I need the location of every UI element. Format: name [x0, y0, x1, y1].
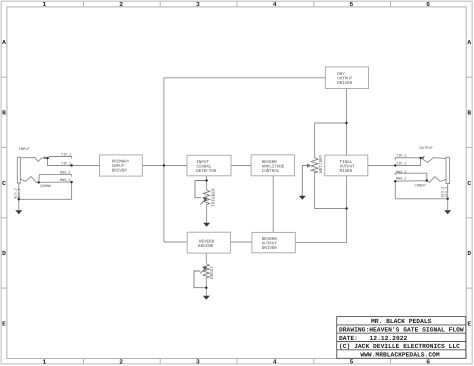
- label INPUT and value CONN6: [19, 147, 53, 189]
- wire: reverb engine to reverb output driver: [230, 241, 252, 243]
- svg-text:CONN6: CONN6: [40, 184, 52, 189]
- svg-text:TIP_1: TIP_1: [396, 153, 407, 158]
- svg-text:RNG_1: RNG_1: [60, 178, 71, 183]
- wire: input TIP_2 to primary input driver: [72, 165, 100, 167]
- svg-text:TIP_2: TIP_2: [396, 162, 407, 167]
- svg-text:5: 5: [350, 1, 354, 8]
- wire: primary input driver to input signal detector: [142, 165, 187, 167]
- svg-text:B: B: [467, 110, 471, 117]
- svg-text:5: 5: [350, 358, 354, 365]
- svg-text:REVERB: REVERB: [199, 239, 215, 244]
- svg-text:6: 6: [426, 358, 430, 365]
- wire: final output mixer to output jack: [368, 165, 396, 167]
- block DRY OUTPUT DRIVER: [325, 67, 368, 89]
- tip_1 stub: [48, 157, 72, 159]
- block FINAL OUTPUT MIXER: [325, 155, 368, 176]
- block INPUT SIGNAL DETECTOR: [187, 155, 231, 176]
- tip switch throw mark: [421, 156, 425, 159]
- tip_2 wire: [48, 158, 72, 165]
- svg-text:TIP_2: TIP_2: [61, 162, 72, 167]
- connector J-IN input jack CONN6: [17, 156, 71, 210]
- svg-text:B: B: [2, 110, 6, 117]
- ground (output sleeve): [444, 210, 451, 214]
- svg-text:FINAL: FINAL: [340, 160, 353, 165]
- potentiometer DECAY: [194, 264, 209, 288]
- svg-text:INPUT: INPUT: [112, 164, 125, 169]
- wire: decay pot to ground: [205, 278, 207, 296]
- wire: reverb engine to decay pot: [205, 253, 207, 263]
- wire: final output mixer bottom to wet node: [346, 176, 348, 243]
- svg-text:MIXER: MIXER: [340, 169, 353, 174]
- label OUTPUT and value CONN7: [415, 146, 434, 189]
- svg-text:4: 4: [273, 358, 277, 365]
- wire: wet node to reverb output driver: [295, 242, 346, 244]
- rng_1 wire: [39, 181, 72, 183]
- tip contact: [20, 158, 47, 162]
- svg-text:DRIVER: DRIVER: [262, 246, 278, 251]
- svg-text:WET/DRY: WET/DRY: [318, 154, 324, 173]
- ring contact: [20, 177, 38, 183]
- svg-text:2: 2: [119, 358, 123, 365]
- ground (wet/dry): [299, 196, 306, 200]
- svg-text:MR. BLACK PEDALS: MR. BLACK PEDALS: [371, 318, 432, 325]
- wire: dry output driver down to node: [346, 89, 348, 156]
- pin labels SLV_2 SLV_1 (input jack): [13, 188, 22, 199]
- svg-text:DECAY: DECAY: [210, 265, 215, 279]
- svg-text:DATE:: DATE:: [339, 335, 358, 342]
- tip contact: [421, 158, 446, 163]
- ring return to sleeve: [19, 182, 72, 199]
- svg-text:DRIVER: DRIVER: [112, 169, 128, 174]
- block REVERB AMPLITUDE CONTROL: [251, 155, 294, 176]
- svg-text:1: 1: [43, 1, 47, 8]
- svg-text:OUTPUT: OUTPUT: [340, 165, 356, 170]
- ground (decay): [203, 296, 210, 300]
- ring contact: [427, 177, 446, 183]
- block REVERB ENGINE: [187, 232, 230, 253]
- ring return to sleeve: [395, 181, 447, 199]
- tip_1 stub: [395, 158, 420, 160]
- svg-text:RNG_2: RNG_2: [396, 170, 407, 175]
- svg-text:REVERB: REVERB: [262, 237, 278, 242]
- svg-text:D: D: [2, 250, 6, 257]
- pin labels TIP_1 TIP_2 RNG_2 RNG_1 (output jack): [396, 153, 407, 181]
- rng_2 stub: [39, 175, 72, 183]
- svg-text:12.12.2022: 12.12.2022: [370, 335, 408, 342]
- wire: input signal detector to reverb amplitude control: [231, 165, 251, 167]
- title block: [337, 317, 466, 359]
- pin labels TIP_1 TIP_2 RNG_2 RNG_1 (input jack): [60, 153, 72, 184]
- svg-text:DRIVER: DRIVER: [337, 81, 353, 86]
- svg-text:2: 2: [119, 1, 123, 8]
- svg-text:(C) JACK DEVILLE ELECTRONICS L: (C) JACK DEVILLE ELECTRONICS LLC: [339, 343, 460, 350]
- rng_1 wire: [395, 180, 427, 183]
- svg-text:REVERB: REVERB: [262, 160, 278, 165]
- svg-text:ENGINE: ENGINE: [198, 244, 214, 249]
- potentiometer TRIGGER: [195, 181, 210, 206]
- svg-text:INPUT: INPUT: [19, 147, 31, 152]
- svg-text:TRIGGER: TRIGGER: [212, 188, 217, 207]
- wire: dry node to wet/dry pot top: [315, 123, 347, 158]
- svg-text:3: 3: [196, 1, 200, 8]
- svg-text:RNG_1: RNG_1: [396, 177, 407, 182]
- svg-text:OUTPUT: OUTPUT: [337, 77, 353, 82]
- svg-text:1: 1: [43, 358, 47, 365]
- wire: wet/dry pot bottom to wet node: [315, 173, 347, 208]
- wire: vertical trunk node to dry/reverb paths: [164, 78, 325, 242]
- tip_2 wire: [395, 158, 420, 166]
- block REVERB OUTPUT DRIVER: [252, 232, 295, 252]
- svg-text:6: 6: [426, 1, 430, 8]
- rng_2 stub: [395, 173, 427, 180]
- ground (input sleeve): [15, 210, 22, 214]
- wire: trunk to reverb engine: [164, 241, 187, 243]
- svg-text:CONTROL: CONTROL: [262, 169, 280, 174]
- block PRIMARY INPUT DRIVER: [100, 155, 143, 176]
- ground (trigger): [203, 223, 210, 227]
- svg-text:INPUT: INPUT: [196, 160, 209, 165]
- sleeve to ground: [447, 184, 449, 211]
- wire: trigger pot to ground: [206, 206, 208, 223]
- svg-text:E: E: [2, 320, 6, 327]
- svg-text:DRAWING:HEAVEN'S GATE SIGNAL F: DRAWING:HEAVEN'S GATE SIGNAL FLOW: [339, 327, 464, 334]
- svg-text:CONN7: CONN7: [415, 183, 426, 188]
- svg-text:TIP_1: TIP_1: [61, 153, 72, 158]
- svg-text:AMPLITUDE: AMPLITUDE: [262, 165, 285, 170]
- svg-text:RNG_2: RNG_2: [60, 170, 71, 175]
- potentiometer WET/DRY: [302, 158, 318, 196]
- sleeve to ground: [18, 183, 20, 210]
- wire: input signal detector to trigger pot: [206, 176, 208, 190]
- svg-text:WWW.MRBLACKPEDALS.COM: WWW.MRBLACKPEDALS.COM: [360, 351, 440, 358]
- svg-text:DETECTOR: DETECTOR: [196, 169, 217, 174]
- svg-text:PRIMARY: PRIMARY: [112, 160, 130, 165]
- svg-text:3: 3: [196, 358, 200, 365]
- pin labels SLV_2 SLV_1 (output jack): [440, 187, 449, 198]
- svg-text:D: D: [467, 250, 471, 257]
- svg-text:C: C: [467, 180, 471, 187]
- svg-text:SLV_1: SLV_1: [17, 188, 22, 199]
- svg-text:OUTPUT: OUTPUT: [262, 242, 278, 247]
- svg-text:E: E: [467, 320, 471, 327]
- svg-text:A: A: [467, 39, 471, 46]
- svg-text:SLV_1: SLV_1: [444, 187, 449, 198]
- svg-text:A: A: [2, 39, 6, 46]
- wire: reverb amplitude control to reverb output driver: [272, 176, 274, 233]
- svg-text:DRY: DRY: [337, 72, 345, 77]
- connector J-OUT output jack CONN7: [395, 156, 449, 210]
- tip switch throw mark: [44, 156, 48, 159]
- svg-text:4: 4: [273, 1, 277, 8]
- svg-text:C: C: [2, 180, 6, 187]
- svg-text:OUTPUT: OUTPUT: [419, 146, 433, 151]
- svg-text:SIGNAL: SIGNAL: [196, 165, 212, 170]
